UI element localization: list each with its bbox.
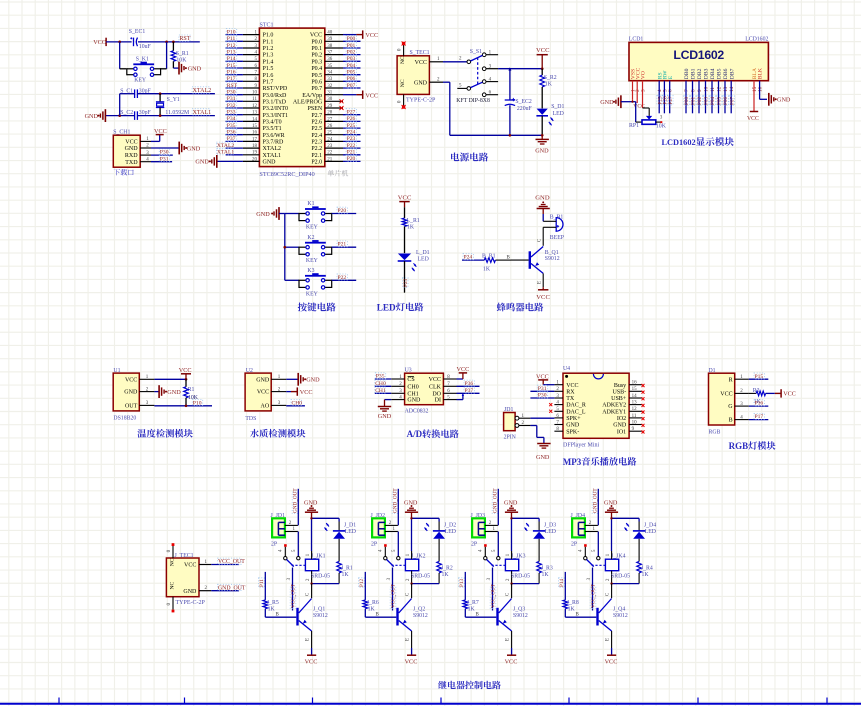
wire P30 bbox=[226, 94, 243, 96]
svg-text:P10: P10 bbox=[193, 400, 202, 406]
base wire bbox=[511, 259, 529, 261]
wire P20 bbox=[343, 160, 361, 162]
svg-text:P00: P00 bbox=[684, 97, 690, 105]
net label P35 bbox=[375, 373, 385, 379]
svg-text:P2.0: P2.0 bbox=[311, 160, 322, 166]
ground (crystal) bbox=[85, 109, 106, 122]
net label XTAL1 bbox=[216, 149, 233, 155]
emitter wire (ch4) bbox=[611, 631, 613, 648]
svg-text:11: 11 bbox=[632, 414, 637, 419]
svg-text:P30: P30 bbox=[160, 150, 169, 156]
net label P23 bbox=[346, 135, 356, 141]
svg-text:VCC: VCC bbox=[536, 294, 550, 301]
net label P26 bbox=[346, 115, 356, 121]
wire P17 bbox=[749, 419, 769, 421]
svg-text:J_R4: J_R4 bbox=[641, 565, 653, 571]
svg-text:P07: P07 bbox=[347, 83, 356, 89]
svg-text:GND: GND bbox=[613, 423, 627, 429]
svg-text:P36: P36 bbox=[227, 130, 236, 136]
net label P05 bbox=[716, 96, 722, 106]
pin 20 GND bbox=[243, 157, 276, 165]
transistor J_Q4 S9012 bbox=[596, 599, 628, 632]
junction (ch3) bbox=[510, 582, 512, 584]
svg-text:NC: NC bbox=[400, 56, 406, 64]
svg-text:DS18B20: DS18B20 bbox=[113, 415, 136, 421]
svg-text:VCC_OUT: VCC_OUT bbox=[218, 559, 245, 565]
svg-text:36: 36 bbox=[327, 57, 333, 62]
svg-text:P26: P26 bbox=[347, 116, 356, 122]
svg-text:VCC_OUT: VCC_OUT bbox=[491, 583, 497, 608]
svg-text:VCC: VCC bbox=[93, 39, 106, 46]
wire LED to R (ch2) bbox=[438, 539, 440, 562]
svg-text:GND: GND bbox=[407, 398, 421, 404]
svg-text:STC89C52RC_DIP40: STC89C52RC_DIP40 bbox=[259, 171, 314, 178]
junction bbox=[185, 404, 188, 407]
net label P12 bbox=[226, 42, 236, 48]
svg-text:21: 21 bbox=[327, 157, 333, 162]
svg-text:P01: P01 bbox=[347, 43, 356, 49]
wire VSS junction bbox=[632, 99, 634, 101]
power port VCC (U1) bbox=[179, 367, 192, 379]
U4 pin 7 GND bbox=[554, 420, 579, 428]
pin 22 P2.1 bbox=[311, 151, 343, 159]
svg-text:VCC: VCC bbox=[154, 128, 167, 135]
net label P35 bbox=[226, 122, 236, 128]
svg-text:P24: P24 bbox=[347, 130, 356, 136]
svg-text:GND: GND bbox=[306, 377, 320, 384]
pin 39 P0.0 bbox=[311, 37, 343, 45]
power port VCC (U4) bbox=[536, 373, 554, 384]
svg-text:RST: RST bbox=[179, 36, 190, 42]
svg-text:P3.4/T0: P3.4/T0 bbox=[263, 120, 282, 126]
net label P17 bbox=[226, 75, 236, 81]
svg-text:E: E bbox=[668, 75, 674, 79]
wire P10 bbox=[226, 34, 243, 36]
junction (ch2) bbox=[410, 517, 412, 519]
net label VCC_OUT (ch2) bbox=[390, 587, 396, 608]
svg-text:J_R1: J_R1 bbox=[341, 565, 353, 571]
svg-text:1K: 1K bbox=[407, 224, 415, 230]
J_JD1 pin 2 bbox=[285, 521, 298, 526]
pin 8 P1.7 bbox=[243, 77, 273, 85]
svg-text:GND: GND bbox=[535, 148, 549, 155]
svg-text:TDS: TDS bbox=[245, 416, 256, 422]
svg-text:2P: 2P bbox=[571, 542, 577, 548]
relay coil J_JK2 SRD-05 bbox=[405, 551, 430, 584]
svg-text:OUT: OUT bbox=[125, 404, 138, 410]
pin 18 XTAL2 bbox=[243, 144, 281, 152]
wire CH1 bbox=[375, 392, 391, 394]
svg-text:GND: GND bbox=[566, 423, 580, 429]
svg-text:GND: GND bbox=[777, 97, 791, 104]
svg-text:J_Q4: J_Q4 bbox=[613, 607, 625, 613]
svg-text:BLK: BLK bbox=[758, 68, 764, 79]
svg-text:P2.7: P2.7 bbox=[311, 113, 322, 119]
svg-text:P2.3: P2.3 bbox=[311, 140, 322, 146]
pin 32 P0.7 bbox=[311, 84, 343, 92]
svg-text:P27: P27 bbox=[347, 110, 356, 116]
no-ERC ALE/PROG bbox=[340, 99, 344, 103]
title buzzer circuit bbox=[497, 303, 544, 312]
connector J_JD3 2P bbox=[471, 513, 486, 548]
net label P06 bbox=[346, 75, 356, 81]
svg-text:VCC: VCC bbox=[783, 391, 796, 398]
svg-text:CS: CS bbox=[407, 377, 414, 383]
svg-text:S9012: S9012 bbox=[545, 256, 560, 262]
net label XTAL1 bbox=[192, 109, 210, 115]
net label P37 bbox=[226, 135, 236, 141]
wire GND rail (ch1) bbox=[312, 518, 340, 551]
wire P03 bbox=[343, 60, 361, 62]
pin 2 GND bbox=[429, 78, 443, 83]
junction bbox=[541, 67, 544, 70]
transistor J_Q1 S9012 bbox=[296, 599, 328, 632]
svg-text:P30: P30 bbox=[538, 393, 547, 399]
svg-text:P0.3: P0.3 bbox=[311, 59, 322, 65]
svg-text:E: E bbox=[306, 638, 311, 641]
svg-text:GND: GND bbox=[188, 66, 202, 73]
U4 pin 4 DAC_R bbox=[554, 401, 585, 409]
svg-text:VO: VO bbox=[641, 71, 647, 79]
svg-text:31: 31 bbox=[327, 91, 333, 96]
svg-text:GND: GND bbox=[536, 454, 550, 461]
svg-text:CH0: CH0 bbox=[407, 384, 418, 390]
svg-text:XTAL1: XTAL1 bbox=[217, 150, 234, 156]
wire EC1 to RST node bbox=[138, 41, 200, 43]
LCD VSS wire bbox=[632, 81, 634, 100]
svg-text:CLK: CLK bbox=[429, 384, 442, 390]
net label P16 bbox=[226, 69, 236, 75]
net label VCC_OUT (ch4) bbox=[590, 587, 596, 608]
svg-text:P0.0: P0.0 bbox=[311, 39, 322, 45]
U4 pin 12 ADKEY1 bbox=[602, 407, 644, 415]
svg-text:P03: P03 bbox=[704, 97, 710, 105]
wire RST bbox=[226, 87, 243, 89]
relay coil J_JK1 SRD-05 bbox=[305, 551, 330, 584]
svg-text:LED: LED bbox=[545, 529, 556, 535]
resistor R2 1K bbox=[749, 388, 775, 405]
svg-text:CH0: CH0 bbox=[375, 381, 386, 387]
title temperature module bbox=[137, 429, 192, 438]
svg-text:P2.1: P2.1 bbox=[311, 153, 322, 159]
wire LED to R (ch1) bbox=[338, 539, 340, 562]
svg-text:GND: GND bbox=[187, 145, 201, 152]
svg-text:SPK-: SPK- bbox=[566, 429, 579, 435]
wire P13 (ch3) bbox=[464, 572, 466, 600]
wire P27 bbox=[343, 114, 361, 116]
wire bus to key bbox=[120, 68, 127, 70]
svg-text:3: 3 bbox=[641, 89, 647, 92]
wire buzzer to collector bbox=[542, 227, 544, 246]
svg-text:18: 18 bbox=[252, 144, 258, 149]
wire R to coil (ch3) bbox=[512, 583, 539, 585]
wire coil to collector (ch3) bbox=[511, 584, 513, 599]
wire GND_OUT vertical (ch3) bbox=[497, 489, 499, 526]
svg-text:J_R2: J_R2 bbox=[441, 565, 453, 571]
pin 28 P2.7 bbox=[311, 111, 343, 119]
wire P00 bbox=[343, 40, 361, 42]
svg-text:P21: P21 bbox=[347, 150, 356, 156]
svg-text:13: 13 bbox=[632, 401, 638, 406]
wire P05 bbox=[343, 74, 361, 76]
svg-text:P3.3/INT1: P3.3/INT1 bbox=[263, 113, 289, 119]
wire P11 bbox=[226, 40, 243, 42]
svg-text:IO2: IO2 bbox=[617, 416, 626, 422]
svg-text:MP3: MP3 bbox=[563, 457, 582, 467]
stub pin top (J_TEC1) bbox=[167, 543, 174, 558]
net label P34 bbox=[226, 115, 236, 121]
pin 21 P2.0 bbox=[311, 157, 343, 165]
no-ERC DAC_L bbox=[549, 410, 552, 413]
svg-text:10: 10 bbox=[632, 420, 638, 425]
ground (keys) bbox=[256, 207, 285, 220]
ground (MP3) bbox=[536, 444, 551, 462]
svg-text:KEY: KEY bbox=[134, 78, 147, 84]
svg-text:P1.1: P1.1 bbox=[263, 39, 274, 45]
U4 pin 15 USB- bbox=[613, 387, 645, 395]
svg-text:J_D4: J_D4 bbox=[644, 523, 656, 529]
svg-text:P11: P11 bbox=[227, 36, 236, 42]
svg-text:34: 34 bbox=[327, 71, 333, 76]
wire P25 bbox=[343, 127, 361, 129]
pin 27 P2.6 bbox=[311, 117, 343, 125]
svg-text:CH1: CH1 bbox=[375, 388, 386, 394]
svg-text:GND: GND bbox=[167, 389, 181, 396]
net label VCC_OUT bbox=[218, 558, 242, 564]
wire coil to collector (ch2) bbox=[411, 584, 413, 599]
svg-text:8: 8 bbox=[691, 89, 697, 92]
svg-text:P06: P06 bbox=[723, 97, 729, 105]
wire down right branch bbox=[166, 42, 168, 69]
pin 33 P0.6 bbox=[311, 77, 343, 85]
U4 pin 2 RX bbox=[554, 387, 575, 395]
stub pin bottom bbox=[398, 94, 406, 109]
J_JD4 pin 1 bbox=[585, 527, 598, 532]
svg-text:P14: P14 bbox=[227, 56, 236, 62]
wire pin4 to GND bbox=[385, 400, 392, 407]
U4 pin 3 TX bbox=[554, 394, 574, 402]
net label P30 bbox=[226, 89, 236, 95]
svg-text:P04: P04 bbox=[710, 97, 716, 105]
pin 37 P0.2 bbox=[311, 51, 343, 59]
key K1 bbox=[299, 201, 332, 230]
wire GND_OUT vertical (ch1) bbox=[297, 489, 299, 526]
svg-text:16: 16 bbox=[252, 131, 258, 136]
svg-text:P37: P37 bbox=[465, 388, 474, 394]
power port VCC (ch2) bbox=[405, 648, 418, 666]
LCD VO wire bbox=[643, 81, 650, 108]
svg-text:24: 24 bbox=[327, 137, 333, 142]
svg-text:P20: P20 bbox=[347, 156, 356, 162]
svg-text:VCC: VCC bbox=[747, 116, 759, 122]
svg-text:1K: 1K bbox=[483, 266, 491, 272]
net label CH0 bbox=[291, 400, 301, 406]
pin 29 PSEN bbox=[308, 104, 343, 112]
svg-text:P0.6: P0.6 bbox=[311, 79, 322, 85]
junction bbox=[165, 41, 168, 44]
wire pin1 to contact (ch2) bbox=[397, 532, 399, 557]
power port VCC (reset) bbox=[93, 38, 106, 46]
svg-text:DI: DI bbox=[435, 398, 441, 404]
resistor J_R2 1K bbox=[437, 561, 453, 583]
svg-text:VCC: VCC bbox=[179, 367, 192, 374]
wire left vertical bbox=[119, 94, 121, 116]
net label P04 bbox=[346, 62, 356, 68]
svg-text:P1.4: P1.4 bbox=[263, 59, 274, 65]
svg-text:DB6: DB6 bbox=[723, 68, 729, 79]
pin 38 P0.1 bbox=[311, 44, 343, 52]
svg-text:P12: P12 bbox=[227, 43, 236, 49]
net label P00 bbox=[346, 35, 356, 41]
VCC_OUT wire (ch3) bbox=[487, 568, 493, 611]
svg-text:P25: P25 bbox=[347, 123, 356, 129]
wire R to base (ch2) bbox=[365, 609, 396, 618]
svg-text:VCC: VCC bbox=[125, 377, 137, 383]
svg-text:7: 7 bbox=[684, 89, 690, 92]
pin 14 P3.4/T0 bbox=[243, 117, 282, 125]
no-ERC PSEN bbox=[340, 106, 344, 110]
svg-text:1K: 1K bbox=[542, 572, 550, 578]
svg-text:39: 39 bbox=[327, 37, 333, 42]
power port VCC (U2) bbox=[291, 387, 313, 396]
svg-text:10K: 10K bbox=[656, 123, 667, 129]
ground (U1) bbox=[159, 385, 181, 398]
svg-text:14: 14 bbox=[632, 394, 638, 399]
emitter wire (ch2) bbox=[411, 631, 413, 648]
pin 1 VCC bbox=[429, 57, 443, 62]
net label P01 bbox=[346, 42, 356, 48]
net label P24 bbox=[463, 254, 473, 260]
connector J_JD2 2P bbox=[371, 513, 386, 548]
wire P31 bbox=[226, 100, 243, 102]
pin 2 P1.1 bbox=[243, 37, 273, 45]
wire CH0 bbox=[375, 385, 391, 387]
svg-text:DO: DO bbox=[432, 391, 441, 397]
ground (LCD left) bbox=[600, 95, 636, 108]
wire GND run bbox=[443, 82, 542, 135]
net label P15 bbox=[754, 373, 764, 379]
wire P17 bbox=[226, 80, 243, 82]
svg-text:LED: LED bbox=[345, 529, 356, 535]
svg-text:P05: P05 bbox=[347, 70, 356, 76]
junction bbox=[159, 114, 162, 117]
svg-text:GND: GND bbox=[600, 99, 614, 106]
net label GND_OUT (ch4) bbox=[592, 492, 598, 513]
svg-text:P0.5: P0.5 bbox=[311, 73, 322, 79]
IC U2 TDS bbox=[245, 368, 286, 422]
wire P30 bbox=[530, 397, 554, 399]
svg-text:1K: 1K bbox=[342, 572, 350, 578]
wire P14 (ch4) bbox=[564, 572, 566, 600]
resistor B_R1 1K bbox=[462, 253, 511, 272]
LED S_D1 bbox=[536, 104, 564, 135]
pin 9 RST/VPD bbox=[243, 84, 288, 92]
svg-text:VCC: VCC bbox=[300, 389, 313, 396]
power port VCC (pin40) bbox=[343, 30, 378, 39]
svg-text:SRD-05: SRD-05 bbox=[611, 574, 630, 580]
svg-text:P23: P23 bbox=[347, 136, 356, 142]
relay contact 5 (ch2) bbox=[392, 549, 400, 560]
wire R to base (ch1) bbox=[265, 609, 296, 618]
svg-text:XTAL1: XTAL1 bbox=[263, 153, 282, 159]
svg-text:9: 9 bbox=[697, 89, 703, 92]
resistor J_R8 1K bbox=[563, 600, 579, 613]
relay contact 4 (ch3) bbox=[479, 544, 487, 560]
svg-text:30: 30 bbox=[327, 97, 333, 102]
net label VCC_OUT (ch1) bbox=[290, 587, 296, 608]
power port GND (ch1) bbox=[304, 499, 318, 518]
wire XTAL2 bbox=[226, 147, 243, 149]
svg-text:RST/VPD: RST/VPD bbox=[263, 86, 288, 92]
svg-text:P06: P06 bbox=[347, 76, 356, 82]
transistor B_Q1 S9012 bbox=[529, 247, 560, 274]
svg-text:20: 20 bbox=[252, 157, 258, 162]
svg-text:14: 14 bbox=[252, 117, 258, 122]
resistor J_R3 1K bbox=[537, 561, 553, 583]
svg-text:E: E bbox=[538, 281, 543, 284]
svg-text:VCC: VCC bbox=[605, 659, 618, 666]
svg-text:ADKEY2: ADKEY2 bbox=[602, 403, 626, 409]
junction bbox=[283, 246, 286, 249]
wire K2 to net bbox=[332, 246, 357, 248]
pin 15 P3.5/T1 bbox=[243, 124, 282, 132]
svg-text:TYPE-C-2P: TYPE-C-2P bbox=[406, 98, 436, 104]
net label XTAL2 bbox=[216, 142, 233, 148]
power port VCC (ch4) bbox=[605, 648, 618, 666]
svg-text:VCC_OUT: VCC_OUT bbox=[291, 583, 297, 608]
wire R to coil (ch4) bbox=[612, 583, 640, 585]
wire JD1 pin1 to SPK+ bbox=[530, 417, 554, 419]
wire P21 bbox=[343, 154, 361, 156]
svg-text:15: 15 bbox=[252, 124, 258, 129]
svg-text:P31: P31 bbox=[160, 156, 169, 162]
svg-text:2P: 2P bbox=[271, 542, 277, 548]
wire P15 bbox=[749, 378, 769, 380]
power port VCC (ch3) bbox=[505, 648, 518, 666]
net label P03 bbox=[346, 55, 356, 61]
buzzer B_B1 BEEP bbox=[543, 214, 564, 241]
junction bbox=[172, 41, 175, 44]
net label RST bbox=[179, 35, 190, 41]
net label P37 bbox=[464, 387, 474, 393]
svg-text:1K: 1K bbox=[268, 607, 276, 613]
svg-text:VCC_OUT: VCC_OUT bbox=[591, 583, 597, 608]
svg-text:12: 12 bbox=[632, 407, 638, 412]
svg-text:P35: P35 bbox=[227, 123, 236, 129]
ground (power circuit) bbox=[535, 135, 549, 154]
emitter wire (ch1) bbox=[311, 631, 313, 648]
J_TEC1 pin 1 bbox=[199, 560, 211, 565]
LCD VCC wire bbox=[633, 81, 645, 110]
svg-text:TX: TX bbox=[566, 396, 575, 402]
pin 23 P2.2 bbox=[311, 144, 343, 152]
U4 pin 10 GND bbox=[613, 420, 644, 428]
power port GND (buzzer) bbox=[535, 194, 550, 221]
resistor L_R1 1K bbox=[402, 207, 420, 253]
LCD wire P27 bbox=[669, 81, 671, 114]
svg-text:GND: GND bbox=[183, 589, 197, 595]
svg-text:P2.5: P2.5 bbox=[311, 126, 322, 132]
net label P31 bbox=[159, 156, 169, 162]
svg-text:29: 29 bbox=[327, 104, 333, 109]
wire LED to R (ch4) bbox=[638, 539, 640, 562]
svg-text:P2.4: P2.4 bbox=[311, 133, 322, 139]
wire GND_OUT vertical (ch4) bbox=[597, 489, 599, 526]
wire cap to GND rail bbox=[509, 105, 511, 135]
svg-text:RGB: RGB bbox=[709, 429, 721, 435]
U4 pin 11 IO2 bbox=[617, 414, 645, 422]
net label GND_OUT (ch2) bbox=[392, 492, 398, 513]
